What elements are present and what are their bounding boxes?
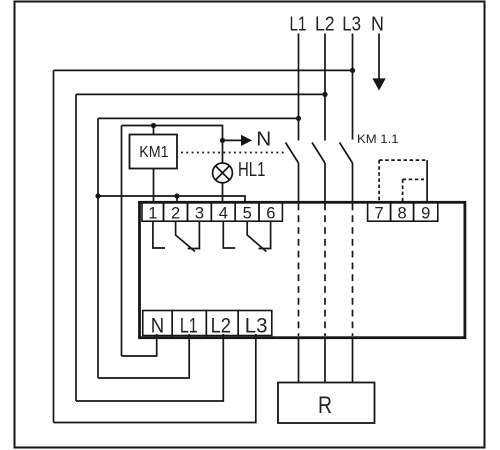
aux contact wire to terminal 9 <box>426 160 428 202</box>
relay contact under 6 <box>259 221 271 248</box>
terminal labels 1-6 <box>148 204 275 222</box>
wire L1 out to load <box>298 339 300 383</box>
wire left bus N vertical <box>121 126 123 357</box>
aux contact KM1.1 linkage (dashed) <box>379 159 427 161</box>
relay contact under 4 (fixed) <box>223 221 235 248</box>
arrow N (to right, at HL1) <box>223 139 242 141</box>
contact KM1.1 blade L2 <box>312 143 325 164</box>
wire L3 out to load <box>352 339 354 383</box>
node on L3 <box>350 68 355 73</box>
svg-text:KM 1.1: KM 1.1 <box>357 132 399 146</box>
node N junction at arrow <box>220 138 225 143</box>
svg-text:KM1: KM1 <box>139 144 168 161</box>
relay contact under 3 <box>188 221 200 248</box>
dashed path L2 inside device <box>324 204 326 337</box>
wire N vertical (supply) <box>378 34 380 80</box>
svg-text:R: R <box>318 392 332 419</box>
relay contact blade 2 <box>176 221 195 251</box>
wire horizontal to L3 <box>54 69 353 71</box>
bottom terminal row N L1 L2 L3 <box>143 311 272 336</box>
dashed path L3 inside device <box>352 204 354 337</box>
wire branch to terminal 2 <box>176 196 178 202</box>
terminal row 1-6 <box>142 202 282 221</box>
wire horizontal to L1 <box>98 117 299 119</box>
terminal labels 7-9 <box>375 204 431 222</box>
node on L1 <box>296 116 301 121</box>
svg-text:N: N <box>371 14 384 36</box>
relay contact under 1 (fixed) <box>153 221 165 248</box>
svg-text:L3: L3 <box>342 14 361 36</box>
wire horizontal N branch to KM1 <box>122 126 223 163</box>
svg-text:8: 8 <box>398 204 407 222</box>
svg-text:5: 5 <box>243 204 252 222</box>
node above terminal 2 <box>174 193 179 198</box>
dashed path L1 inside device <box>298 204 300 337</box>
contact KM1.1 blade L1 <box>286 143 299 164</box>
svg-text:N: N <box>151 313 164 337</box>
svg-text:N: N <box>256 129 271 151</box>
svg-text:L1: L1 <box>290 14 307 36</box>
svg-text:L2: L2 <box>315 14 335 36</box>
node on L2 <box>322 92 327 97</box>
wire L1 phase to terminals 2 and 5 <box>98 196 245 202</box>
svg-text:L3: L3 <box>245 313 268 337</box>
wire left bus L3 vertical <box>53 70 55 422</box>
wire L2 vertical (supply) <box>324 34 326 141</box>
wire bottom loop L2 <box>76 334 223 401</box>
wire KM1 bottom lead to terminal 1 <box>153 169 155 203</box>
svg-text:L2: L2 <box>211 313 231 337</box>
node on L1 bus <box>95 193 100 198</box>
svg-text:HL1: HL1 <box>238 159 265 181</box>
svg-text:7: 7 <box>375 204 384 222</box>
device box <box>140 202 465 337</box>
wire KM1 top lead <box>153 126 155 135</box>
wire left bus L2 vertical <box>75 94 77 401</box>
svg-text:6: 6 <box>266 204 275 222</box>
wire bottom loop L1 <box>98 334 189 378</box>
svg-text:4: 4 <box>219 204 228 222</box>
node above KM1 <box>151 123 156 128</box>
wire HL1 to terminal 4 <box>222 183 224 202</box>
wire left bus L1 vertical <box>97 118 99 378</box>
wire bottom loop N <box>122 334 157 356</box>
lamp HL1 <box>213 163 233 183</box>
svg-text:L1: L1 <box>180 313 198 337</box>
load R <box>278 383 375 424</box>
svg-text:1: 1 <box>148 204 157 222</box>
svg-text:9: 9 <box>421 204 430 222</box>
arrow N (down) <box>372 78 385 90</box>
wire L3 vertical (supply) <box>352 34 354 140</box>
wire L2 out to load <box>324 339 326 383</box>
wire horizontal to L2 <box>76 93 325 95</box>
relay contact blade 5 <box>247 221 266 251</box>
svg-text:2: 2 <box>171 204 180 222</box>
terminal row 7-9 <box>368 202 438 221</box>
wire L1 vertical (supply) <box>298 34 300 141</box>
svg-text:3: 3 <box>195 204 204 222</box>
dotted linkage KM1 to contacts <box>181 152 286 154</box>
contactor coil KM1 <box>130 135 178 169</box>
contact KM1.1 blade L3 <box>340 143 353 164</box>
wire bottom loop L3 <box>54 334 256 423</box>
